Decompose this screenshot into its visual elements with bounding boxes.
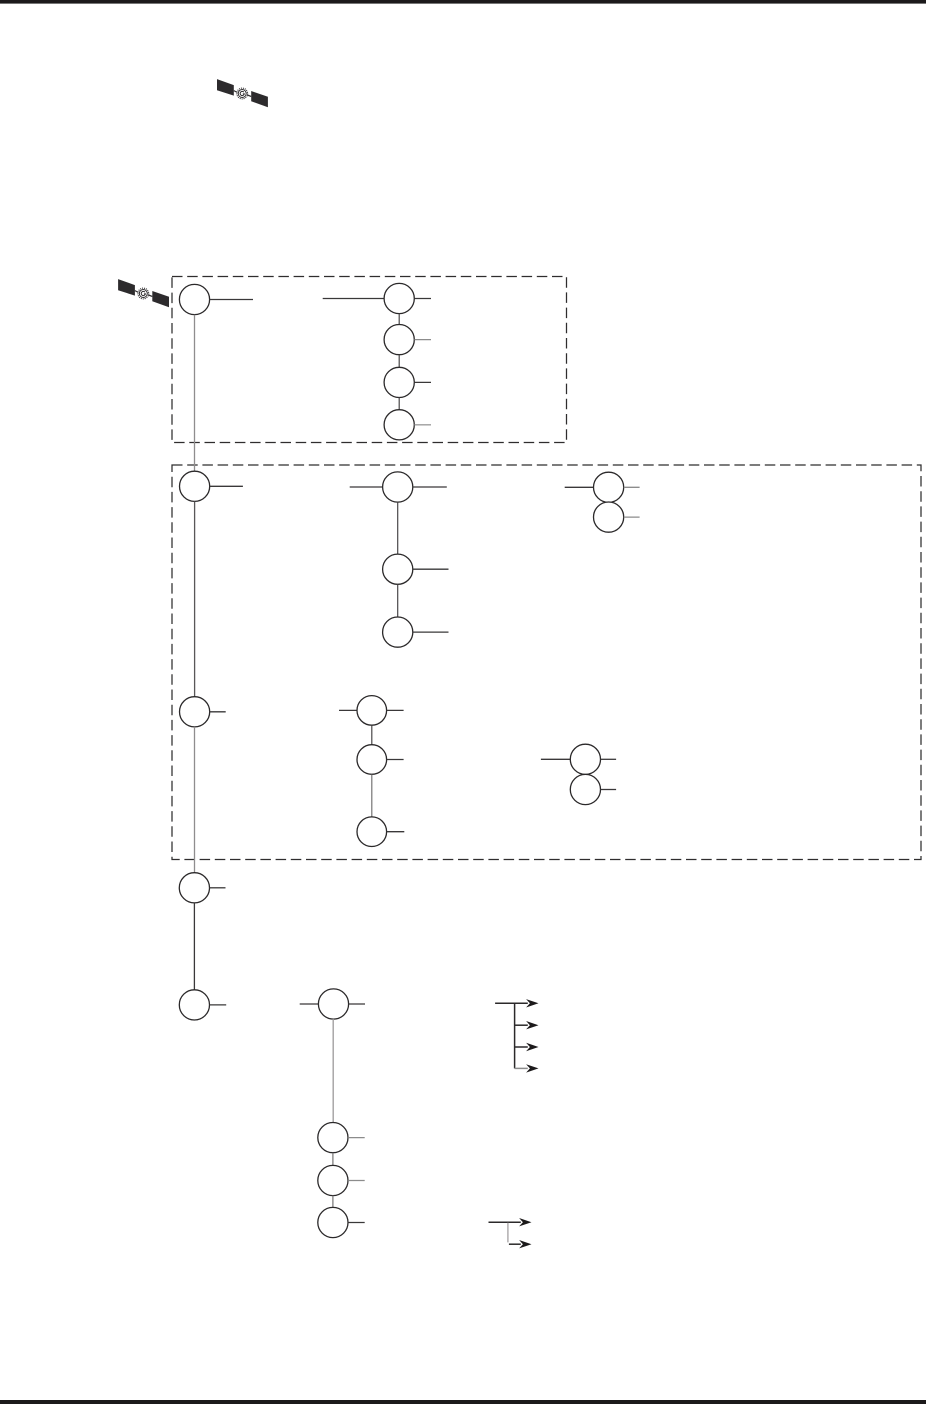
wire D1 stub	[624, 486, 640, 488]
wire spine A1-A2	[194, 315, 196, 472]
wire E2 stub	[387, 759, 404, 761]
node E3	[357, 817, 387, 847]
node E2	[357, 745, 387, 775]
arrow fan2 head 1	[519, 1218, 531, 1226]
wire fan2 feeder	[489, 1221, 521, 1223]
node C3	[383, 617, 413, 647]
wire fan1 feeder	[495, 1002, 528, 1004]
wire B4 stub	[414, 424, 431, 426]
wire spine A4-A5	[193, 903, 195, 990]
wire E1 stub	[387, 709, 404, 711]
wire G1 left lead	[300, 1003, 319, 1005]
satellite icon SAT2	[118, 279, 169, 307]
wire A3 stub	[210, 711, 226, 713]
wire fan2 branch 2	[509, 1243, 521, 1245]
wire H3 stub	[348, 1222, 365, 1224]
node B1	[384, 283, 414, 313]
node F2	[570, 774, 600, 804]
node E1	[357, 696, 387, 726]
dashed box GROUP1	[172, 277, 567, 443]
node B2	[384, 325, 414, 355]
node H2	[318, 1165, 348, 1195]
wire H1-H2	[332, 1153, 334, 1166]
wire B2 stub	[414, 339, 431, 341]
node H3	[318, 1207, 348, 1237]
wire C1-C2	[397, 502, 399, 554]
wire H2 stub	[348, 1180, 365, 1182]
arrow fan2 head 2	[519, 1240, 531, 1248]
footer rule (bottom black bar)	[0, 1400, 926, 1404]
header rule (top black bar)	[0, 0, 926, 4]
arrow fan1 head 3	[526, 1043, 538, 1051]
wire H1 stub	[348, 1137, 365, 1139]
wire fan1 branch 3	[515, 1046, 528, 1048]
wire C2 stub	[413, 568, 449, 570]
wire C1 left lead	[350, 486, 383, 488]
wire B1 left lead	[323, 298, 384, 300]
wire spine A3-A4	[194, 727, 196, 873]
node G1	[318, 989, 348, 1019]
node B3	[384, 367, 414, 397]
node A1	[179, 284, 209, 314]
wire B3-B4	[398, 398, 400, 410]
wire A1 stub	[210, 299, 253, 301]
wire fan1 branch 2	[515, 1024, 528, 1026]
wire F1 stub	[601, 758, 617, 760]
wire E3 stub	[387, 831, 405, 833]
wire F1 left lead	[541, 758, 570, 760]
wire G1 stub	[349, 1003, 365, 1005]
node H1	[318, 1123, 348, 1153]
wire spine G1-H1	[332, 1019, 334, 1123]
wire E1 left lead	[339, 709, 357, 711]
wire B1-B2	[398, 314, 400, 325]
dashed box GROUP2	[172, 465, 921, 860]
node D2	[594, 502, 624, 532]
wire B1 stub	[414, 298, 431, 300]
wire fan1 bus	[514, 1003, 516, 1068]
node F1	[570, 744, 600, 774]
arrow fan1 head 2	[526, 1021, 538, 1029]
wire F2 stub	[601, 789, 617, 791]
wire spine A2-A3	[194, 502, 196, 697]
wire fan1 branch 4	[515, 1067, 528, 1069]
wire C3 stub	[413, 631, 449, 633]
wire E1-E2	[371, 725, 373, 744]
wire A5 stub	[210, 1004, 227, 1006]
wire H2-H3	[332, 1196, 334, 1208]
arrow fan1 head 4	[526, 1064, 538, 1072]
wire D1 left lead	[565, 486, 594, 488]
node C2	[383, 554, 413, 584]
node A3	[180, 697, 210, 727]
node B4	[384, 410, 414, 440]
wire D2 stub	[624, 516, 640, 518]
arrow fan1 head 1	[526, 999, 538, 1007]
node A4	[179, 873, 209, 903]
satellite icon SAT1	[217, 79, 268, 107]
wire B2-B3	[398, 355, 400, 368]
node A5	[179, 990, 209, 1020]
wire B3 stub	[414, 381, 431, 383]
wire A2 stub	[210, 485, 243, 487]
node D1	[594, 472, 624, 502]
node A2	[180, 471, 210, 501]
wire C1 stub	[413, 486, 447, 488]
wire A4 stub	[210, 887, 226, 889]
node C1	[383, 472, 413, 502]
wire C2-C3	[397, 584, 399, 617]
wire E2-E3	[371, 774, 373, 816]
wire fan2 drop	[507, 1223, 509, 1243]
